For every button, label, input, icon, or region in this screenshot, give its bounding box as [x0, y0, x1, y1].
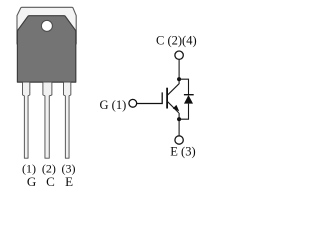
diode D1 cathode bar — [184, 94, 194, 96]
package body — [17, 16, 75, 82]
diode D1 anode triangle — [184, 95, 193, 104]
leg 1 (G) — [23, 82, 30, 158]
wire bottom branch from diode — [179, 104, 188, 120]
wire emitter vertical — [178, 113, 180, 136]
wire top branch to diode — [179, 79, 188, 95]
terminal E — [175, 136, 183, 144]
terminal C — [175, 51, 183, 59]
svg-text:G (1): G (1) — [100, 98, 127, 112]
IGBT body bar — [166, 88, 168, 109]
node junction top — [177, 77, 181, 81]
collector diagonal lead — [167, 84, 179, 96]
svg-text:C (2)(4): C (2)(4) — [156, 33, 197, 47]
leg 3 (E) — [64, 82, 71, 158]
svg-text:G: G — [27, 174, 36, 189]
svg-text:E (3): E (3) — [170, 144, 195, 158]
package tab (metal) — [17, 7, 76, 44]
svg-text:E: E — [65, 174, 73, 189]
IGBT emitter diagonal lead — [167, 101, 179, 113]
terminal G — [129, 99, 137, 107]
wire collector vertical — [178, 59, 180, 84]
leg 2 (C) — [43, 82, 52, 158]
mounting hole — [41, 20, 52, 31]
IGBT gate lead and gate bar — [137, 92, 163, 103]
emitter arrowhead — [173, 105, 179, 111]
svg-text:C: C — [46, 174, 55, 189]
node junction bottom — [177, 117, 181, 121]
